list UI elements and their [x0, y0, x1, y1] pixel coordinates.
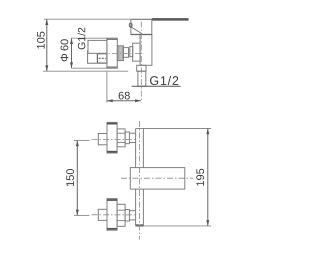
extension line D60 top [72, 37, 108, 39]
dimension line 105 [46, 19, 48, 71]
axis top connector dash-dot [92, 139, 136, 141]
label 195 [196, 169, 204, 186]
dimension line 68 [107, 100, 141, 102]
dimension line D60 [71, 38, 73, 68]
195 bottom extension [136, 225, 212, 227]
hex nut top [117, 129, 125, 147]
label 150 [66, 169, 74, 186]
connector piece 1 [123, 48, 128, 58]
connector piece bottom [125, 210, 129, 222]
flange top [107, 122, 117, 153]
axis bottom connector dash-dot [92, 214, 136, 216]
bar left edge [135, 129, 137, 168]
connector piece top [125, 132, 129, 144]
spout axis dash-dot [121, 177, 193, 179]
wall thread G1/2 [97, 54, 107, 63]
extension line 150 top [74, 139, 90, 141]
flange bottom [107, 199, 117, 231]
label G1/2 wall inlet [78, 28, 86, 50]
dimension line 195 [207, 129, 209, 226]
extension line 150 bottom [74, 214, 90, 216]
pipe bottom [129, 210, 135, 212]
pipe top [129, 132, 135, 134]
body top line [131, 34, 152, 36]
hex nut bottom [117, 204, 125, 226]
stub bottom [98, 209, 107, 220]
label G1/2 outlet [150, 76, 178, 85]
dimension line 150 [76, 140, 78, 215]
vertical axis top view dash-dot [140, 22, 142, 103]
lever handle bar [152, 18, 189, 21]
outlet flange [137, 65, 146, 71]
bar top + 195 top extension [136, 128, 212, 130]
extension line 68 left [106, 72, 108, 103]
extension line D60 bottom [72, 67, 108, 69]
bar bottom cap [136, 224, 144, 226]
eccentric union body [88, 40, 107, 53]
extension line bottom (105) [43, 70, 128, 72]
leader G1/2 inlet [88, 50, 97, 63]
label 105 [37, 32, 45, 49]
connector piece 3 [133, 43, 140, 61]
bar axis dash-dot [138, 121, 140, 240]
lever link diagonal [131, 27, 142, 34]
flange escutcheon [107, 38, 117, 68]
connector piece 2 [130, 47, 133, 57]
pivot ellipse [129, 23, 132, 27]
flange caps [107, 38, 117, 40]
knurled nut [117, 46, 123, 61]
outlet thread stub [138, 71, 146, 86]
label G1/2 outlet underline [132, 85, 181, 87]
union axis dash-dot [89, 52, 144, 54]
label 68 [119, 92, 130, 100]
label D60 [61, 39, 69, 61]
extension line top (105) [44, 18, 152, 20]
bar right edge [142, 129, 144, 168]
cartridge housing [131, 19, 152, 34]
spout rectangle [130, 168, 185, 190]
stub top [98, 134, 107, 145]
thread hatch [99, 57, 106, 59]
body [140, 35, 152, 66]
